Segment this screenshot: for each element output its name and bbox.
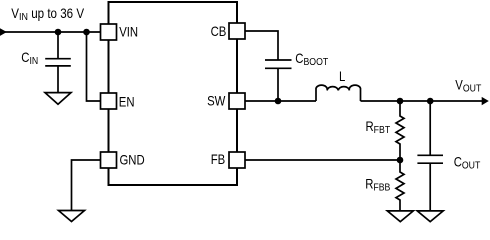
svg-text:EN: EN [119,94,135,109]
svg-text:VIN: VIN [119,24,138,39]
svg-text:FB: FB [211,152,225,167]
svg-text:L: L [339,69,345,84]
svg-text:CB: CB [211,24,227,39]
svg-text:GND: GND [120,153,145,168]
svg-text:SW: SW [207,94,225,109]
